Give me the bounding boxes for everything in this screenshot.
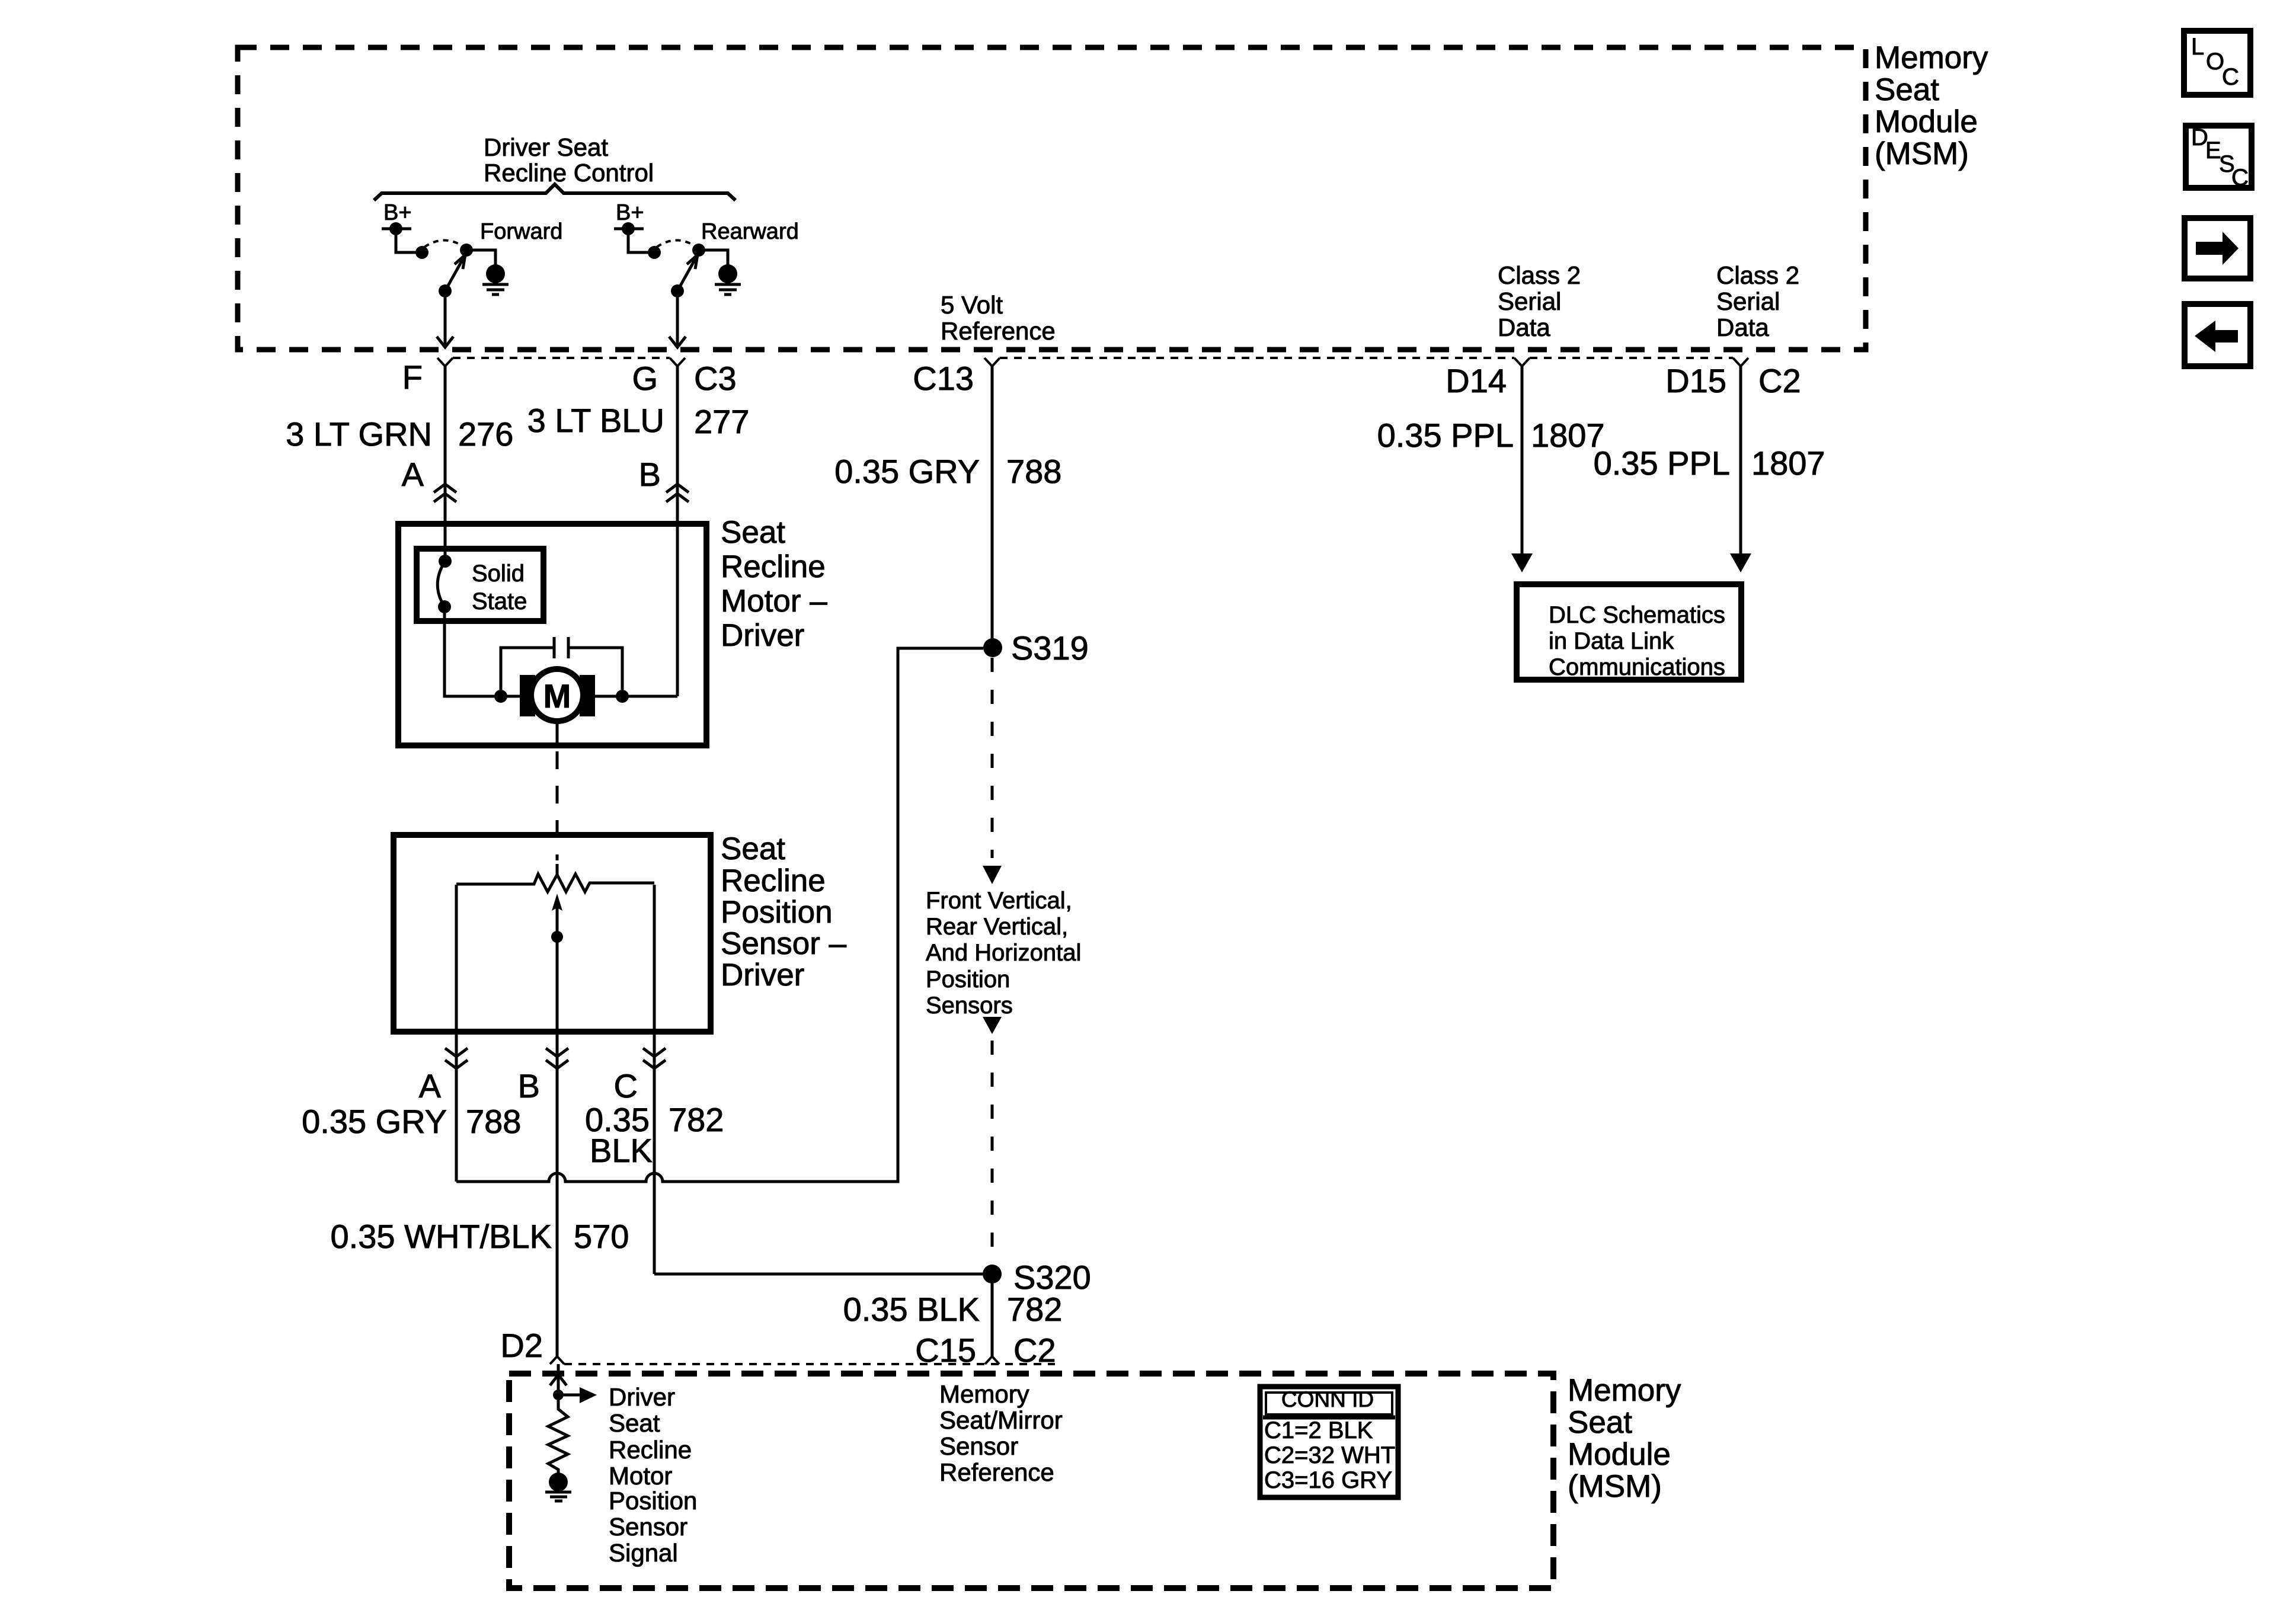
wire contact to ground (forward) — [466, 250, 495, 267]
brace under Driver Seat Recline Control — [374, 184, 736, 200]
resistor (motor position sensor) — [548, 1395, 568, 1473]
svg-text:Motor: Motor — [609, 1462, 672, 1490]
wire G to motor box — [676, 366, 679, 521]
svg-text:Driver: Driver — [721, 958, 804, 993]
arrowhead D15 — [1730, 553, 1751, 572]
svg-text:0.35 PPL: 0.35 PPL — [1377, 417, 1514, 454]
label: Seat Recline Position Sensor - Driver — [721, 831, 847, 993]
wire pin A down — [455, 1033, 458, 1182]
svg-text:0.35 GRY: 0.35 GRY — [302, 1103, 447, 1140]
B+ terminal (forward) — [382, 228, 411, 231]
svg-text:C1=2 BLK: C1=2 BLK — [1264, 1417, 1373, 1443]
Forward switch — [382, 200, 562, 347]
svg-text:D15: D15 — [1665, 362, 1726, 399]
connector V at F — [437, 358, 453, 391]
svg-text:788: 788 — [466, 1103, 521, 1140]
wiper junction dot — [551, 931, 563, 943]
wire solid state to motor left — [445, 607, 520, 696]
potentiometer resistive track — [456, 874, 654, 892]
capacitor across motor — [554, 637, 568, 658]
svg-text:C2: C2 — [1758, 362, 1801, 399]
svg-text:Data: Data — [1716, 313, 1769, 341]
svg-text:Module: Module — [1875, 104, 1978, 139]
wire 5V reference C13 down to S319 — [991, 366, 994, 648]
inline chevrons on wire F — [434, 484, 456, 502]
svg-text:Recline: Recline — [609, 1436, 692, 1464]
svg-text:Communications: Communications — [1549, 654, 1725, 680]
label: Seat Recline Motor - Driver — [721, 515, 827, 653]
svg-text:C2=32 WHT: C2=32 WHT — [1264, 1442, 1395, 1468]
connector V at D15/C2 — [1733, 358, 1748, 391]
arrow out of sensors note — [983, 1017, 1002, 1034]
svg-text:C: C — [614, 1067, 638, 1105]
svg-text:Sensors: Sensors — [926, 993, 1013, 1019]
svg-text:5 Volt: 5 Volt — [941, 291, 1003, 319]
svg-text:Module: Module — [1568, 1437, 1671, 1472]
svg-text:CONN ID: CONN ID — [1281, 1387, 1374, 1411]
connector V at G — [670, 358, 685, 391]
wire D15 down to DLC — [1739, 366, 1742, 556]
svg-text:M: M — [543, 677, 571, 715]
switch arm (rearward) — [671, 284, 684, 297]
svg-text:Driver: Driver — [609, 1383, 675, 1411]
svg-text:Class 2: Class 2 — [1498, 261, 1581, 289]
svg-text:B: B — [639, 456, 661, 493]
svg-text:in Data Link: in Data Link — [1549, 628, 1674, 654]
svg-text:0.35 WHT/BLK: 0.35 WHT/BLK — [331, 1218, 552, 1255]
arrow into sensors note — [983, 866, 1002, 884]
wire F to motor box — [444, 366, 447, 521]
svg-text:(MSM): (MSM) — [1568, 1469, 1662, 1504]
svg-text:F: F — [402, 359, 423, 396]
svg-text:Reference: Reference — [941, 317, 1056, 345]
note: Driver Seat Recline Motor Position Sensor Signal — [609, 1383, 697, 1567]
wire A into solid state — [444, 521, 447, 560]
svg-text:1807: 1807 — [1751, 444, 1825, 482]
svg-text:Position: Position — [609, 1487, 697, 1515]
svg-text:Sensor: Sensor — [939, 1432, 1018, 1460]
svg-text:Serial: Serial — [1716, 287, 1780, 315]
svg-text:C13: C13 — [913, 360, 974, 397]
svg-text:782: 782 — [669, 1101, 724, 1138]
svg-text:Position: Position — [926, 966, 1010, 993]
svg-text:Driver: Driver — [721, 618, 804, 653]
connector V at C13 — [984, 358, 1000, 391]
label: Driver Seat Recline Control — [484, 133, 654, 187]
wire pin B down to D2 — [556, 1033, 559, 1356]
svg-text:0.35 GRY: 0.35 GRY — [834, 453, 980, 490]
label: Memory Seat Module (MSM) top right — [1875, 40, 1988, 171]
connector half at C15/C2 — [985, 1356, 999, 1364]
CONN ID table — [1260, 1387, 1398, 1497]
inline chevrons on wire G — [666, 484, 689, 502]
note: Memory Seat/Mirror Sensor Reference — [939, 1380, 1063, 1486]
svg-text:State: State — [472, 588, 527, 614]
wiper arrow — [556, 901, 559, 938]
svg-text:A: A — [419, 1067, 442, 1105]
dashed wire motor to position sensor — [556, 751, 559, 860]
Seat Recline Position Sensor - Driver box — [394, 835, 711, 1032]
svg-text:Driver Seat: Driver Seat — [484, 133, 608, 161]
wiper wire down — [556, 938, 559, 1033]
svg-text:D2: D2 — [500, 1327, 543, 1364]
note: Class 2 Serial Data (right) — [1716, 261, 1799, 341]
wire pin C down — [653, 1033, 656, 1274]
Seat Recline Motor - Driver box — [398, 524, 706, 745]
wire S320 down to C15/C2 — [991, 1274, 994, 1356]
svg-text:G: G — [632, 360, 658, 397]
wire D14 down to DLC — [1521, 366, 1524, 556]
arrowhead D14 — [1511, 553, 1533, 572]
svg-text:A: A — [402, 456, 424, 493]
svg-text:D14: D14 — [1446, 362, 1507, 399]
svg-text:Signal: Signal — [609, 1539, 678, 1567]
svg-text:Seat: Seat — [1875, 72, 1939, 107]
inline chevrons pin A — [445, 1048, 468, 1068]
svg-text:Forward: Forward — [480, 219, 562, 244]
dashed actuation arc (forward) — [424, 241, 465, 248]
contact dot right (rearward) — [692, 244, 705, 257]
svg-text:Front Vertical,: Front Vertical, — [926, 888, 1072, 914]
potentiometer legs — [456, 885, 654, 1033]
contact dot right (forward) — [460, 244, 473, 257]
svg-text:788: 788 — [1006, 453, 1061, 490]
svg-text:Data: Data — [1498, 313, 1550, 341]
thin dashed connector face line — [453, 357, 1733, 359]
svg-text:C3: C3 — [694, 360, 737, 397]
switch arm (forward) — [439, 284, 452, 297]
svg-text:C: C — [2231, 165, 2249, 191]
wire arm down to module edge (forward) — [444, 291, 447, 346]
DESC icon box — [2186, 124, 2252, 191]
splice S319 — [983, 638, 1002, 657]
svg-text:3 LT GRN: 3 LT GRN — [286, 415, 432, 453]
wire B+ to contact (forward) — [396, 229, 422, 252]
wire contact to ground (rearward) — [699, 250, 728, 267]
svg-text:B+: B+ — [383, 200, 412, 225]
ground (forward) — [486, 264, 505, 283]
svg-text:C3=16 GRY: C3=16 GRY — [1264, 1467, 1392, 1493]
svg-text:Sensor –: Sensor – — [721, 926, 847, 961]
svg-text:Memory: Memory — [1568, 1373, 1681, 1408]
svg-text:Memory: Memory — [939, 1380, 1029, 1408]
svg-text:Seat: Seat — [721, 831, 785, 866]
solid state switch curve — [437, 561, 445, 607]
connector V at D14 — [1514, 358, 1530, 391]
svg-text:782: 782 — [1007, 1291, 1062, 1328]
dashed wire down to S320 — [991, 1041, 994, 1265]
motor bottom stub — [556, 721, 559, 748]
svg-text:And Horizontal: And Horizontal — [926, 940, 1081, 966]
signal arrow right — [558, 1394, 580, 1397]
wire G inside box — [676, 521, 679, 696]
note: Front Vertical, Rear Vertical, And Horizontal Position Sensors — [926, 888, 1081, 1019]
svg-text:(MSM): (MSM) — [1875, 136, 1969, 171]
wire into module with up arrow — [557, 1364, 560, 1395]
svg-text:Seat: Seat — [609, 1409, 660, 1437]
solid state switch box — [417, 549, 543, 621]
wire C to S320 — [654, 1273, 983, 1276]
Memory Seat Module (MSM) top dashed box — [238, 47, 1866, 350]
left-arrow icon box — [2185, 304, 2250, 366]
svg-text:Reference: Reference — [939, 1458, 1054, 1486]
motor M brushes — [520, 675, 535, 716]
svg-text:Recline: Recline — [721, 549, 826, 584]
svg-text:Recline: Recline — [721, 863, 826, 898]
connector half at D2 — [550, 1356, 564, 1364]
svg-text:Sensor: Sensor — [609, 1513, 687, 1541]
wire arm down to module edge (rearward) — [676, 291, 679, 346]
svg-text:Memory: Memory — [1875, 40, 1988, 75]
svg-text:Position: Position — [721, 895, 833, 930]
inline chevrons pin B — [546, 1048, 568, 1068]
svg-text:S319: S319 — [1011, 629, 1089, 667]
svg-text:Rearward: Rearward — [701, 219, 799, 244]
svg-text:Motor –: Motor – — [721, 584, 827, 619]
DLC Schematics box — [1517, 584, 1741, 680]
svg-text:3 LT BLU: 3 LT BLU — [527, 402, 664, 439]
dashed actuation arc (rearward) — [657, 241, 697, 248]
contact dot left (rearward) — [648, 246, 661, 259]
svg-text:B+: B+ — [616, 200, 644, 225]
svg-text:0.35 BLK: 0.35 BLK — [843, 1291, 980, 1328]
ground (rearward) — [718, 264, 737, 283]
junction dot motor left — [494, 690, 507, 703]
motor M circle — [531, 669, 583, 721]
svg-text:276: 276 — [458, 415, 513, 453]
contact dot left (forward) — [415, 246, 428, 259]
junction dot signal — [553, 1390, 564, 1400]
svg-text:570: 570 — [574, 1218, 629, 1255]
ground (sensor signal) — [549, 1473, 568, 1491]
B+ terminal (rearward) — [614, 228, 644, 231]
svg-text:DLC Schematics: DLC Schematics — [1549, 602, 1725, 628]
note: Class 2 Serial Data (left) — [1498, 261, 1581, 341]
svg-text:Seat: Seat — [721, 515, 785, 550]
svg-text:Seat: Seat — [1568, 1405, 1632, 1440]
svg-text:Solid: Solid — [472, 561, 525, 587]
svg-text:BLK: BLK — [590, 1132, 653, 1169]
svg-text:Recline Control: Recline Control — [484, 159, 654, 187]
svg-text:Rear Vertical,: Rear Vertical, — [926, 914, 1068, 940]
LOC icon box — [2184, 31, 2250, 95]
Memory Seat Module (MSM) bottom dashed box — [509, 1374, 1553, 1588]
svg-text:B: B — [518, 1067, 540, 1105]
svg-text:277: 277 — [694, 403, 749, 440]
inline chevrons pin C — [643, 1048, 666, 1068]
note: 5 Volt Reference — [941, 291, 1056, 345]
svg-text:0.35 PPL: 0.35 PPL — [1594, 444, 1730, 482]
label: Memory Seat Module (MSM) bottom right — [1568, 1373, 1681, 1504]
solid state contact dots — [439, 555, 452, 568]
wire A to S319 with hops over B and C — [456, 648, 983, 1182]
svg-text:Seat/Mirror: Seat/Mirror — [939, 1406, 1063, 1434]
splice S320 — [983, 1265, 1002, 1283]
svg-text:C: C — [2222, 64, 2239, 90]
Rearward switch — [614, 200, 799, 347]
wire motor right to G wire — [594, 695, 677, 698]
thin dashed connector face line (bottom) — [564, 1363, 1055, 1365]
dashed wire S319 down — [991, 658, 994, 858]
svg-text:Class 2: Class 2 — [1716, 261, 1799, 289]
junction dot motor right — [616, 690, 629, 703]
svg-text:Serial: Serial — [1498, 287, 1561, 315]
right-arrow icon box — [2185, 218, 2250, 279]
wire B+ to contact (rearward) — [628, 229, 654, 252]
svg-text:L: L — [2191, 34, 2204, 60]
